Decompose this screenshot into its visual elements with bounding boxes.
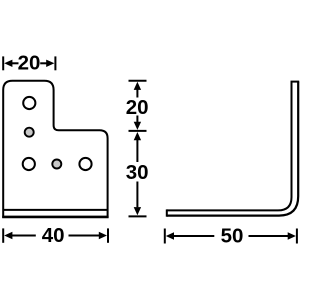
dimension 20 vertical: down arrow <box>134 116 141 130</box>
hole bottom-middle small gray <box>52 160 61 169</box>
svg-text:30: 30 <box>126 161 149 184</box>
side view left end cap <box>166 209 168 216</box>
side view inner profile <box>167 82 292 211</box>
dimension 40 bottom: ticks <box>3 228 108 242</box>
dimension 50 bottom: ticks <box>165 229 297 244</box>
svg-text:20: 20 <box>126 96 149 119</box>
svg-text:50: 50 <box>221 224 244 247</box>
dimension 20 top: left arrow <box>4 60 18 67</box>
dimension 30 vertical: up arrow <box>134 132 141 162</box>
dimension 20 vertical: up arrow <box>134 82 141 98</box>
dimension 20 top: ticks <box>3 56 55 70</box>
bracket front view outline <box>3 81 107 217</box>
bracket bottom edge (thick) <box>2 216 108 219</box>
hole bottom-right large <box>79 158 91 170</box>
dimension 40 bottom: left arrow <box>4 232 36 239</box>
dimension 40 bottom: right arrow <box>69 232 108 239</box>
side view top end cap <box>291 81 300 83</box>
bracket bottom flange inner line <box>3 209 107 211</box>
svg-text:20: 20 <box>18 52 41 75</box>
hole top large <box>23 97 35 109</box>
dimension 30 vertical: down arrow <box>134 182 141 216</box>
dimension 50 bottom: right arrow <box>249 232 296 239</box>
dimension 20 top: right arrow <box>40 60 54 67</box>
hole bottom-left large <box>23 158 35 170</box>
dimension 50 bottom: left arrow <box>166 232 215 239</box>
hole small gray upper <box>25 128 34 137</box>
dimension column ticks <box>129 81 147 217</box>
svg-text:40: 40 <box>42 224 65 247</box>
side view outer profile <box>167 82 298 216</box>
